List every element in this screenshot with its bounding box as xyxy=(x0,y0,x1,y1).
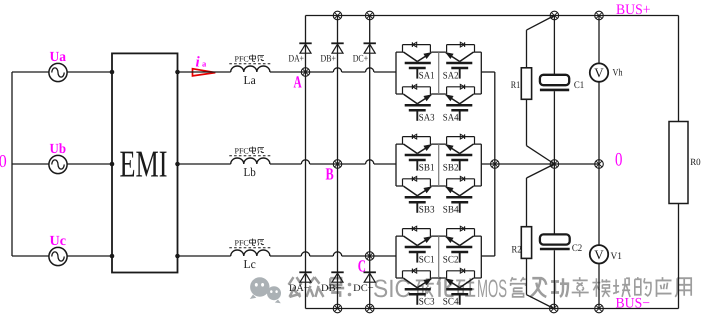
wire: rail to Ua xyxy=(12,71,49,73)
svg-text:A: A xyxy=(294,73,303,92)
wire: Ub to EMI xyxy=(67,163,112,165)
switch module SC (SC1-SC4) xyxy=(396,236,481,278)
junction voltmeter/mid xyxy=(595,160,604,169)
wire: C1 top xyxy=(553,16,555,75)
junction collector/mid xyxy=(491,160,500,169)
wire: mid to V1 xyxy=(598,164,600,245)
EMI filter block xyxy=(112,53,178,272)
wire hop over DB line xyxy=(333,255,341,257)
wire: R2 bottom diagonal xyxy=(526,258,528,294)
svg-text:SC1: SC1 xyxy=(419,254,435,265)
svg-text:SC2: SC2 xyxy=(443,254,459,265)
wire: R2 top diagonal xyxy=(527,164,555,178)
wire: phase line B vertical xyxy=(337,16,339,309)
wire: Ua to EMI xyxy=(67,71,112,73)
svg-text:Lc: Lc xyxy=(244,257,256,271)
wire: C2 bottom xyxy=(553,250,555,308)
svg-text:SA4: SA4 xyxy=(443,113,459,124)
inductor Lc (PFC) xyxy=(229,239,271,272)
transistor SC2 with antiparallel diode xyxy=(446,226,475,262)
resistor R2 xyxy=(512,227,532,259)
capacitor C2 xyxy=(540,234,582,254)
wire: EMI to module C (phase c) xyxy=(178,255,231,257)
junction dot EMI right xyxy=(175,254,180,259)
svg-text:SC3: SC3 xyxy=(419,297,435,308)
svg-text:V: V xyxy=(594,65,604,80)
wire: R0 bottom xyxy=(678,204,680,309)
svg-text:R0: R0 xyxy=(690,158,701,168)
diode DC- xyxy=(353,272,376,294)
transistor SC3 with antiparallel diode xyxy=(403,268,432,304)
AC source Ua xyxy=(49,50,67,82)
svg-text:SC4: SC4 xyxy=(443,297,459,308)
switch module SA (SA1-SA4) xyxy=(396,52,481,94)
junction top bus xyxy=(333,11,342,20)
transistor SA2 with antiparallel diode xyxy=(446,42,475,78)
svg-text:MOS: MOS xyxy=(477,275,507,303)
wire: module C output xyxy=(481,255,495,257)
junction RC/mid xyxy=(550,160,559,169)
svg-text:SB3: SB3 xyxy=(419,205,435,216)
svg-text:DC+: DC+ xyxy=(353,54,369,65)
svg-text:Ua: Ua xyxy=(50,50,67,65)
svg-text:Lb: Lb xyxy=(244,165,256,179)
svg-text:DB−: DB− xyxy=(321,283,342,294)
wire: phase line A vertical xyxy=(305,16,307,309)
svg-text:SA1: SA1 xyxy=(419,70,435,81)
wire: collector vertical xyxy=(494,72,496,256)
node B xyxy=(333,160,342,169)
junction dot EMI left xyxy=(110,162,115,167)
current arrow ia (red) xyxy=(193,69,216,76)
svg-text:DA+: DA+ xyxy=(289,54,305,65)
transistor SC4 with antiparallel diode xyxy=(446,268,475,304)
svg-text:EMI: EMI xyxy=(120,143,168,185)
wire hop over DC line xyxy=(366,71,374,73)
junction bottom bus voltmeter xyxy=(595,304,604,313)
transistor SB1 with antiparallel diode xyxy=(403,134,432,170)
junction dot EMI right xyxy=(175,70,180,75)
svg-text:SA3: SA3 xyxy=(419,113,435,124)
wire: R1 top diagonal xyxy=(527,16,555,31)
junction bottom bus xyxy=(365,304,374,313)
svg-text:C: C xyxy=(358,257,366,276)
transistor SA4 with antiparallel diode xyxy=(446,84,475,120)
svg-text:PFC: PFC xyxy=(235,239,249,248)
svg-text:B: B xyxy=(326,165,334,184)
transistor SB3 with antiparallel diode xyxy=(403,176,432,212)
wire hop over DA line xyxy=(301,163,309,165)
node A xyxy=(301,68,310,77)
wire: EMI to module A (phase a) xyxy=(178,71,231,73)
transistor SA1 with antiparallel diode xyxy=(403,42,432,78)
wire: R0 top xyxy=(678,16,680,122)
wire: voltmeter column top xyxy=(598,16,600,64)
diode DC+ xyxy=(353,43,376,64)
wire: BUS+ top bus xyxy=(306,15,679,17)
transistor SA3 with antiparallel diode xyxy=(403,84,432,120)
wire: left neutral rail xyxy=(11,72,13,256)
wire: R1 bottom diagonal xyxy=(526,99,528,145)
wire: C2 top xyxy=(553,164,555,234)
watermark: WeChat logo xyxy=(250,277,281,303)
voltmeter Vh xyxy=(590,63,623,81)
wire: C1 bottom xyxy=(553,91,555,164)
wire: Vh to mid xyxy=(598,82,600,164)
svg-text:DB+: DB+ xyxy=(321,54,337,65)
wire: EMI to module B (phase b) xyxy=(178,163,231,165)
svg-text:SB2: SB2 xyxy=(443,162,459,173)
svg-text:BUS+: BUS+ xyxy=(616,2,651,18)
inductor Lb (PFC) xyxy=(229,147,271,180)
svg-text:SA2: SA2 xyxy=(443,70,459,81)
junction bottom bus xyxy=(333,304,342,313)
svg-text:BUS−: BUS− xyxy=(616,296,651,312)
junction dot EMI left xyxy=(110,70,115,75)
wire: rail to Uc xyxy=(12,255,49,257)
svg-text:0: 0 xyxy=(615,149,622,170)
junction top bus voltmeter xyxy=(595,11,604,20)
wire hop over DC line xyxy=(366,163,374,165)
junction top bus xyxy=(365,11,374,20)
svg-text:C2: C2 xyxy=(572,243,582,254)
svg-text:La: La xyxy=(244,73,257,87)
svg-text:SB4: SB4 xyxy=(443,205,459,216)
junction dot EMI right xyxy=(175,162,180,167)
svg-text:V1: V1 xyxy=(611,251,623,262)
wire hop over DA line xyxy=(301,255,309,257)
svg-text:DA−: DA− xyxy=(289,283,310,294)
svg-text:DC−: DC− xyxy=(353,283,374,294)
diode DB- xyxy=(321,272,344,294)
resistor R1 xyxy=(511,68,532,100)
wire hop over DB line xyxy=(333,71,341,73)
svg-text:Vh: Vh xyxy=(613,68,623,79)
voltmeter V1 xyxy=(590,245,622,263)
svg-text:0: 0 xyxy=(0,151,7,171)
svg-text:R1: R1 xyxy=(511,80,521,91)
diode DA- xyxy=(289,272,312,294)
svg-text:Ub: Ub xyxy=(50,142,67,157)
svg-text:PFC: PFC xyxy=(235,55,249,64)
svg-text:PFC: PFC xyxy=(235,147,249,156)
transistor SB2 with antiparallel diode xyxy=(446,134,475,170)
diode DB+ xyxy=(321,43,344,64)
transistor SB4 with antiparallel diode xyxy=(446,176,475,212)
transistor SC1 with antiparallel diode xyxy=(403,226,432,262)
diode DA+ xyxy=(289,43,312,64)
AC source Uc xyxy=(49,234,67,266)
junction dot EMI left xyxy=(110,254,115,259)
svg-text:Uc: Uc xyxy=(50,234,67,249)
capacitor C1 xyxy=(540,75,584,91)
wire: BUS- bottom bus xyxy=(306,308,679,310)
junction top bus R1C1 xyxy=(550,11,559,20)
watermark: gray text 公众号：SIC碳化硅MOS管及功率模块的应用 xyxy=(289,277,302,297)
wire: V1 to bottom bus xyxy=(598,264,600,309)
svg-text:C1: C1 xyxy=(574,80,584,91)
wire: rail to Ub xyxy=(12,163,49,165)
wire: phase line C vertical xyxy=(369,16,371,309)
junction bottom bus R2C2 xyxy=(550,304,559,313)
wire: Uc to EMI xyxy=(67,255,112,257)
svg-text:R2: R2 xyxy=(512,244,522,255)
wire: midpoint line to node 0 xyxy=(481,163,599,165)
node C xyxy=(365,252,374,261)
svg-text:V: V xyxy=(594,247,604,262)
AC source Ub xyxy=(49,142,67,174)
switch module SB (SB1-SB4) xyxy=(396,144,481,186)
svg-text:SB1: SB1 xyxy=(419,162,435,173)
resistor R0 (load) xyxy=(669,122,701,204)
inductor La (PFC) xyxy=(229,55,271,88)
wire: module A output xyxy=(481,71,495,73)
